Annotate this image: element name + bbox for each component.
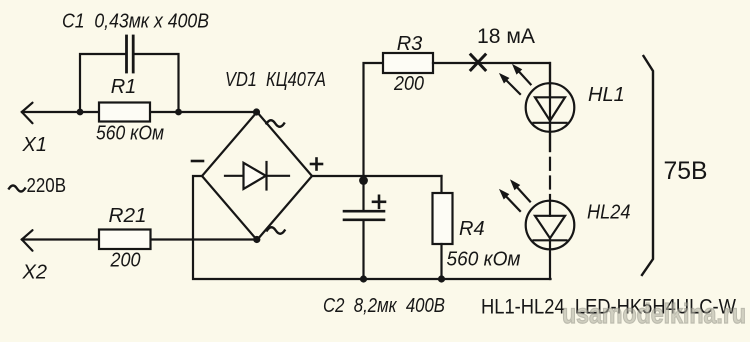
svg-text:200: 200 [393, 73, 424, 95]
svg-text:220В: 220В [27, 175, 67, 197]
svg-text:HL1: HL1 [588, 84, 625, 106]
capacitor C2 [344, 176, 384, 279]
svg-text:usamodelkina.ru: usamodelkina.ru [562, 298, 746, 329]
minus sign at bridge left output [192, 160, 203, 163]
AC tilde mark bottom of bridge [267, 227, 285, 234]
junction node plus rail [359, 176, 368, 185]
LED HL1 [526, 63, 575, 151]
plus sign of C2 [373, 196, 385, 208]
wire C1 right riser [135, 54, 179, 112]
wire C1 left riser [80, 54, 126, 112]
terminal X2 arrowhead [22, 230, 33, 251]
svg-text:C1 0,43мк х 400В: C1 0,43мк х 400В [62, 11, 209, 33]
svg-text:560 кОм: 560 кОм [96, 123, 164, 145]
AC tilde mark top of bridge [267, 120, 285, 127]
svg-text:C2 8,2мк 400В: C2 8,2мк 400В [323, 295, 445, 317]
junction node bottom rail C2 [360, 275, 367, 282]
current cross mark 18 mA [470, 54, 486, 71]
junction node on X1 line at C1 left [77, 109, 84, 116]
voltage bracket 75V [642, 56, 653, 275]
diode inside VD1 [225, 162, 289, 190]
svg-text:HL24: HL24 [587, 202, 631, 224]
junction node bottom rail R4 [438, 275, 445, 282]
svg-text:560 кОм: 560 кОм [447, 249, 521, 271]
svg-text:R4: R4 [459, 218, 485, 240]
junction node bridge bottom vertex [253, 236, 260, 243]
LED HL24 [526, 195, 575, 279]
plus sign at bridge right output [311, 159, 322, 170]
junction node on X1 line at C1 right [175, 109, 182, 116]
bridge rectifier VD1 diamond [202, 112, 312, 240]
wire minus rail (bridge left, down, along bottom) [193, 176, 551, 279]
junction node bridge top vertex [253, 108, 260, 115]
svg-text:X1: X1 [22, 134, 47, 156]
resistor R1 [99, 103, 150, 122]
capacitor C1 [127, 36, 134, 72]
svg-text:R3: R3 [397, 33, 423, 55]
svg-text:200: 200 [110, 250, 141, 272]
light arrows of HL1 [500, 65, 531, 94]
svg-text:X2: X2 [22, 262, 47, 284]
AC tilde at 220V label [9, 186, 25, 192]
wire R3 to LED chain corner [433, 63, 550, 151]
svg-text:R1: R1 [111, 76, 137, 98]
dashed wire between HL1 and HL24 [549, 158, 551, 189]
light arrows of HL24 [500, 181, 530, 212]
wire riser from plus rail up to R3 [364, 63, 384, 176]
resistor R3 [383, 53, 433, 73]
wire X2 main line [22, 238, 257, 240]
svg-text:18 мА: 18 мА [477, 25, 535, 48]
wire plus rail (bridge right to R4 top corner) [312, 175, 442, 177]
resistor R4 [433, 176, 453, 279]
wire X1 main line [22, 111, 256, 113]
svg-text:VD1 КЦ407А: VD1 КЦ407А [225, 69, 326, 91]
svg-text:R21: R21 [109, 205, 147, 227]
resistor R21 [99, 230, 151, 250]
terminal X1 arrowhead [22, 103, 33, 124]
svg-text:75В: 75В [664, 157, 708, 185]
